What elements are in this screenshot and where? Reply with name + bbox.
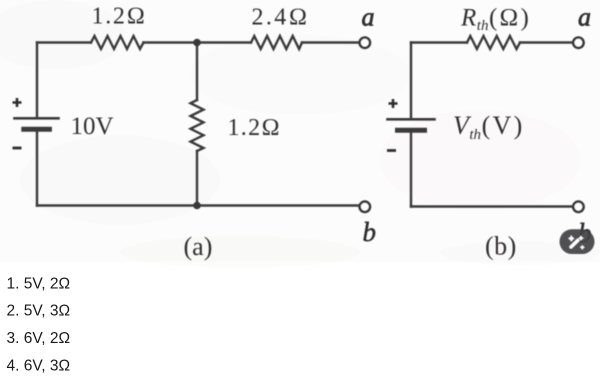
- junction node bottom (a): [193, 202, 201, 210]
- svg-text:a: a: [362, 3, 375, 32]
- wire: (b) left vertical upper: [410, 43, 412, 119]
- svg-text:a: a: [578, 3, 591, 32]
- terminal b of circuit (a): [360, 202, 370, 212]
- terminal a of circuit (b): [573, 38, 583, 48]
- svg-text:1.2Ω: 1.2Ω: [228, 115, 282, 141]
- wire: (a) left vertical upper: [36, 43, 38, 118]
- wire: (b) left vertical lower: [410, 131, 412, 207]
- terminal b of circuit (b): [573, 202, 583, 212]
- wire: (a) bottom rail: [37, 204, 359, 206]
- svg-text:1. 5V, 2Ω: 1. 5V, 2Ω: [7, 275, 71, 292]
- overlay icon: magic wand glyph: [568, 235, 585, 249]
- wire: (a) top-left segment: [37, 41, 91, 43]
- svg-text:3. 6V, 2Ω: 3. 6V, 2Ω: [7, 330, 71, 347]
- resistor R1 1.2ohm top-left zigzag: [91, 36, 144, 49]
- resistor R2 2.4ohm zigzag: [251, 36, 302, 49]
- terminal a of circuit (a): [360, 38, 370, 48]
- plus sign of battery V1: [13, 98, 22, 107]
- battery Vth short thick plate: [398, 128, 425, 133]
- svg-text:4. 6V, 3Ω: 4. 6V, 3Ω: [7, 358, 71, 375]
- svg-text:Rth(Ω): Rth(Ω): [460, 5, 531, 35]
- wire: (b) top-right to terminal a: [520, 41, 572, 43]
- svg-text:b: b: [363, 217, 377, 247]
- wire: (b) bottom rail: [411, 205, 572, 207]
- svg-text:1.2Ω: 1.2Ω: [92, 4, 147, 30]
- svg-text:Vth(V): Vth(V): [453, 111, 525, 143]
- overlay icon: dark pill button: [560, 229, 595, 254]
- svg-text:2.4Ω: 2.4Ω: [252, 5, 310, 31]
- wire: (a) middle vertical upper: [196, 43, 198, 101]
- minus sign of battery Vth: [387, 149, 396, 152]
- wire: (a) left vertical lower: [36, 130, 38, 206]
- wire: (a) middle vertical lower: [196, 151, 198, 206]
- wire: (a) top-middle segment: [144, 41, 252, 43]
- resistor Rth zigzag: [467, 36, 520, 49]
- svg-text:(b): (b): [485, 232, 517, 261]
- battery Vth long plate: [388, 118, 435, 121]
- plus sign of battery Vth: [389, 99, 398, 108]
- battery V1 short thick plate: [24, 127, 50, 132]
- minus sign of battery V1: [13, 147, 22, 150]
- svg-text:2. 5V, 3Ω: 2. 5V, 3Ω: [7, 303, 71, 320]
- resistor R3 1.2ohm vertical zigzag: [191, 100, 204, 151]
- svg-text:(a): (a): [184, 232, 213, 261]
- svg-text:10V: 10V: [71, 113, 114, 140]
- wire: (a) top-right to terminal a: [302, 41, 359, 43]
- wire: (b) top-left segment: [411, 41, 467, 43]
- battery V1 long plate: [15, 117, 59, 120]
- junction node top (a): [193, 39, 201, 47]
